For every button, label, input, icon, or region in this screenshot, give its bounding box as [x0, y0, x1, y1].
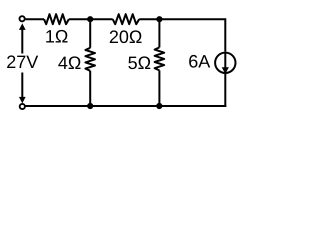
svg-text:5Ω: 5Ω [128, 53, 151, 73]
voltage arrow shaft lower [21, 73, 23, 98]
wire right branch below current source [224, 74, 226, 107]
wire 4ohm branch bottom [89, 71, 91, 106]
terminal circle top-left [20, 16, 25, 21]
wire bottom [26, 105, 227, 107]
node C junction dot bottom of 4ohm [87, 103, 93, 109]
wire top between R1 and node A [69, 18, 113, 20]
current source I1 circle [215, 53, 235, 73]
svg-text:20Ω: 20Ω [109, 27, 142, 47]
svg-text:1Ω: 1Ω [45, 27, 68, 47]
voltage arrow head down [19, 97, 26, 104]
svg-text:6A: 6A [188, 52, 210, 72]
resistor R2 20ohm [113, 14, 140, 24]
node B junction dot top of 5ohm [156, 16, 162, 22]
voltage arrow head up [19, 23, 26, 30]
resistor R1 1ohm [44, 14, 69, 24]
voltage arrow shaft upper [21, 29, 23, 54]
svg-text:4Ω: 4Ω [58, 53, 81, 73]
current source I1 arrow shaft [224, 53, 226, 69]
resistor R3 4ohm vertical [85, 48, 95, 71]
wire 5ohm branch top [158, 19, 160, 47]
resistor R4 5ohm vertical [155, 47, 165, 70]
svg-text:27V: 27V [6, 52, 38, 72]
wire 5ohm branch bottom [158, 70, 160, 106]
node D junction dot bottom of 5ohm [156, 103, 162, 109]
wire top between R2 and top-right corner [139, 19, 225, 52]
wire top left stub [25, 18, 44, 20]
terminal circle bottom-left [20, 104, 25, 109]
node A junction dot top of 4ohm [87, 16, 93, 22]
current source I1 arrow head down [222, 67, 229, 74]
wire 4ohm branch top [89, 19, 91, 48]
